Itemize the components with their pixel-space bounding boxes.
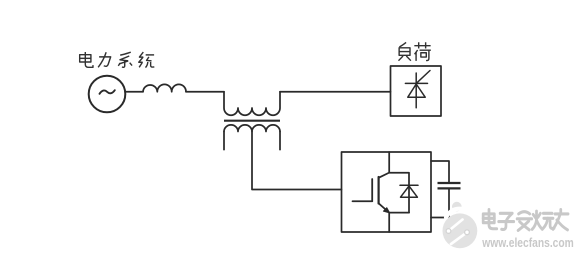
watermark logo <box>443 202 478 248</box>
IGBT Q1 <box>353 173 390 213</box>
label 电力系统 <box>80 52 155 68</box>
wire source to inductor <box>125 91 143 93</box>
wire diode loop top <box>389 173 409 213</box>
diode D1 <box>400 185 418 197</box>
inductor L1 <box>143 84 186 91</box>
secondary right stub <box>279 132 281 150</box>
transformer T1 secondary winding <box>224 125 280 132</box>
secondary left stub <box>223 132 225 150</box>
wire converter to capacitor top <box>431 161 449 182</box>
transformer T1 core <box>224 120 280 122</box>
wire inductor to transformer <box>186 91 224 93</box>
wire primary to load box <box>280 91 391 93</box>
wire diode loop bottom <box>389 212 409 214</box>
svg-text:www.elecfans.com: www.elecfans.com <box>482 235 574 250</box>
label 负荷 <box>398 42 430 61</box>
wire capacitor bottom <box>431 190 449 218</box>
secondary center tap wire to converter <box>252 132 342 190</box>
load box <box>391 66 442 116</box>
dc leg wire top <box>388 152 390 173</box>
transformer T1 primary winding <box>224 92 280 116</box>
dc leg wire bottom <box>388 213 390 232</box>
AC source G1 <box>89 76 126 113</box>
thyristor in load box <box>405 71 430 108</box>
converter box U1 <box>342 152 432 232</box>
capacitor C1 <box>438 183 461 188</box>
watermark text 电子发烧友 <box>483 210 568 231</box>
